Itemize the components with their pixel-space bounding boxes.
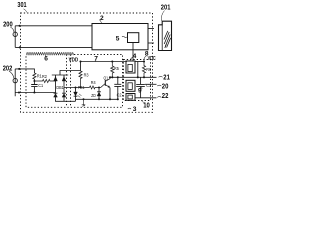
svg-text:R2: R2 <box>42 74 47 80</box>
junction dot R5 top <box>111 60 113 62</box>
diode upper-right <box>62 77 66 81</box>
junction dot C1/rail <box>33 91 35 93</box>
wire C1 to rail <box>33 87 35 93</box>
wire VDD rail <box>80 61 127 63</box>
capacitor C2 <box>117 77 119 84</box>
wire from box 5 down to contact box <box>132 43 134 62</box>
contact box 2 inner <box>128 83 132 90</box>
svg-text:VDC: VDC <box>148 56 156 62</box>
svg-text:R6: R6 <box>146 67 151 73</box>
contact box 3 <box>126 94 135 101</box>
wire to terminal 22 <box>135 97 157 99</box>
wire to terminal 21 <box>110 76 157 78</box>
bridge rectifier DB1 <box>52 75 76 101</box>
svg-text:C3: C3 <box>146 83 151 89</box>
junction dot ZD bottom <box>98 98 100 100</box>
Q1 emitter wire to rail <box>109 88 111 100</box>
junction dot base/R3 <box>80 86 82 88</box>
dashed partition line x=76.5 <box>70 55 72 108</box>
resistor R6 (vertical zigzag at VDC) <box>142 62 145 78</box>
dashed box 3 (control circuit) <box>26 55 123 108</box>
node dot on top wire <box>19 25 21 27</box>
wire vertical through terminal 200 <box>14 26 16 48</box>
contact box 1 inner <box>128 64 132 71</box>
junction dot rail/gnd stub <box>83 98 85 100</box>
junction dot ZD top <box>98 87 100 89</box>
svg-text:4: 4 <box>133 53 137 60</box>
leader 4 <box>130 57 133 61</box>
wire opto base line <box>64 87 90 89</box>
bridge right leg <box>63 75 65 93</box>
svg-text:5: 5 <box>116 35 120 42</box>
terminal 202 (AC plug prong) <box>13 78 17 82</box>
svg-text:201: 201 <box>161 5 171 12</box>
svg-text:301: 301 <box>17 2 26 9</box>
resistor R3 (vertical zigzag) <box>79 71 82 88</box>
leader 301 <box>24 9 27 13</box>
box 2 (heater unit) <box>92 24 148 50</box>
junction dot R6 bottom <box>143 76 145 78</box>
bridge bottom U wire <box>56 97 76 101</box>
svg-text:20: 20 <box>162 83 169 90</box>
wire branch down from rail <box>137 62 139 78</box>
junction dot Q1 emitter/rail <box>109 98 111 100</box>
svg-text:C2: C2 <box>117 92 122 98</box>
wire second AC line to box 2 <box>15 46 92 48</box>
leader tilde for 3 <box>128 107 131 110</box>
svg-text:3: 3 <box>133 106 137 113</box>
diode upper-left <box>54 77 58 81</box>
capacitor C3 <box>140 77 142 84</box>
svg-text:R4: R4 <box>91 80 96 86</box>
junction dot rail1 <box>18 91 20 93</box>
leader 202 <box>9 71 14 78</box>
ground symbol <box>82 99 86 106</box>
contact box 1 (relay contact) <box>126 61 135 73</box>
photocoupler PC1 LED <box>75 88 77 92</box>
Q1 emitter with arrow <box>106 85 110 87</box>
tilde 22 <box>157 96 161 99</box>
resistor R4 (horizontal zigzag to Q1 base) <box>90 84 106 89</box>
svg-text:22: 22 <box>162 93 169 100</box>
plug blade stub lower <box>148 42 154 44</box>
svg-text:ZD: ZD <box>91 93 96 99</box>
svg-text:PC1: PC1 <box>78 85 85 90</box>
Q1 base bar <box>104 80 106 86</box>
capacitor C1 <box>31 85 37 87</box>
svg-text:VDD: VDD <box>69 58 79 64</box>
bridge minus riser to rail <box>75 96 77 101</box>
junction dot branch/wire21 <box>137 76 139 78</box>
contact box 3 inner <box>128 95 132 99</box>
svg-text:7: 7 <box>94 56 98 63</box>
leader 8 <box>144 56 146 61</box>
ground rail (DC minus) <box>76 98 119 100</box>
box 201 (wall outlet) <box>159 21 172 50</box>
svg-text:10: 10 <box>143 102 150 109</box>
wire from 202 to R1 <box>15 69 34 73</box>
svg-text:202: 202 <box>3 65 13 72</box>
diode lower-left <box>54 94 58 98</box>
bridge left leg <box>55 75 57 93</box>
svg-text:9: 9 <box>138 88 142 95</box>
junction dot base/PC1 <box>75 87 77 89</box>
node dot on second wire <box>19 46 21 48</box>
resistor R1 (vertical zigzag) <box>33 73 36 79</box>
wire rail to node 8 <box>135 61 144 63</box>
leader 9 <box>140 87 143 89</box>
wire bottom AC rail <box>15 92 55 94</box>
leader 2 <box>99 20 101 24</box>
diode lower-left bar <box>54 92 58 94</box>
junction dot C2 top <box>117 76 119 78</box>
contact box 2 <box>126 80 135 91</box>
svg-text:R5: R5 <box>114 66 119 72</box>
junction dot rail/C2 <box>117 98 119 100</box>
heater element 6 (zigzag) <box>26 52 73 55</box>
tilde 21 <box>159 75 163 78</box>
transistor Q1 <box>104 75 112 100</box>
Q1 collector <box>106 77 110 81</box>
svg-text:21: 21 <box>163 74 170 81</box>
leader 10 <box>142 101 145 103</box>
junction dot R5 bottom <box>111 76 113 78</box>
leader 6 <box>44 55 46 56</box>
zener diode ZD <box>98 88 100 92</box>
svg-text:Q1: Q1 <box>104 75 109 81</box>
diode lower-right bar <box>62 92 66 94</box>
PC1 emission arrows <box>78 94 82 98</box>
outlet hatch <box>164 31 171 48</box>
leader 200 <box>11 27 15 32</box>
diode lower-right <box>62 94 66 98</box>
dashed box 10 (connector/relay block) <box>124 60 151 101</box>
wire bridge DC+ to VDD <box>60 62 81 76</box>
svg-text:C1: C1 <box>38 83 43 89</box>
svg-text:6: 6 <box>44 56 48 63</box>
node VDD dot <box>79 60 81 62</box>
leader 7 <box>94 60 97 63</box>
leader tilde for 5 <box>122 36 127 37</box>
dashed box 301 (outer enclosure) <box>21 13 153 112</box>
plug blade stub upper <box>148 28 154 30</box>
wire R1 bottom node <box>33 79 35 85</box>
tilde 20 <box>157 84 161 87</box>
dashed partition line x=67 <box>66 55 68 108</box>
svg-text:R3: R3 <box>84 72 89 78</box>
leader 201 <box>161 11 164 22</box>
terminal 200 (AC plug prong) <box>13 32 17 36</box>
junction dot node 8 <box>143 60 145 62</box>
bridge top edge <box>52 74 68 76</box>
resistor R2 (horizontal zigzag) <box>34 79 55 82</box>
resistor R5 (vertical zigzag) <box>111 62 114 78</box>
wire vertical through terminal 202 <box>14 69 16 96</box>
svg-text:DB1: DB1 <box>56 85 64 90</box>
wire to terminal 20 <box>145 83 157 85</box>
box 5 (thermo switch) <box>128 33 139 43</box>
node dot on 202 wire <box>18 68 20 70</box>
outlet face line <box>161 25 163 51</box>
wire top AC line to box 2 <box>15 25 92 27</box>
junction dot R1/R2/C1 <box>33 80 35 82</box>
